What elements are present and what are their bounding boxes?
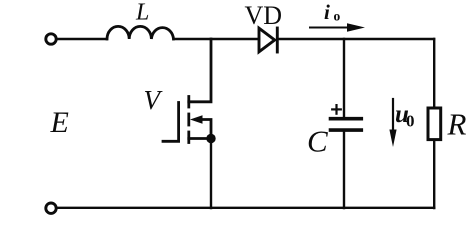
source stub: [189, 137, 211, 140]
svg-text:L: L: [135, 0, 149, 26]
channel segment bottom: [187, 132, 190, 143]
wire: source to bottom rail: [210, 139, 212, 209]
junction dot source/body: [206, 134, 215, 143]
svg-text:i: i: [324, 0, 330, 24]
wire: inductor to diode anode: [174, 38, 260, 40]
wire: top rail right corner down to resistor: [433, 39, 435, 107]
wire: diode cathode to right corner: [279, 38, 435, 40]
capacitor C plates: [331, 119, 362, 130]
capacitor C branch: wire from top rail: [343, 39, 345, 117]
gate bar: [177, 103, 180, 141]
svg-text:C: C: [307, 124, 328, 159]
svg-text:V: V: [144, 85, 164, 115]
svg-text:VD: VD: [245, 1, 283, 30]
body stub with arrow: [199, 120, 211, 139]
svg-text:o: o: [334, 9, 341, 24]
wire: capacitor to bottom rail: [343, 132, 345, 208]
wire: top-left terminal to inductor: [57, 38, 107, 40]
bottom rail wire: [57, 207, 434, 209]
input terminal bottom-left: [46, 203, 56, 213]
gate lead: [163, 140, 179, 143]
resistor R: [428, 108, 441, 140]
current arrow i_o: [310, 23, 365, 32]
channel segment top: [187, 97, 190, 108]
transistor V (MOSFET): [163, 39, 211, 143]
voltage arrow u_0: [389, 99, 396, 147]
drain lead wire: [189, 39, 211, 102]
svg-text:E: E: [50, 106, 69, 139]
inductor L: [107, 26, 174, 39]
wire: resistor to bottom rail: [433, 141, 435, 208]
plus sign of capacitor: [332, 105, 341, 114]
svg-text:0: 0: [406, 112, 415, 131]
svg-text:R: R: [447, 107, 467, 142]
input terminal top-left: [46, 34, 56, 44]
channel segment middle: [187, 114, 190, 125]
diode VD: [259, 28, 277, 52]
